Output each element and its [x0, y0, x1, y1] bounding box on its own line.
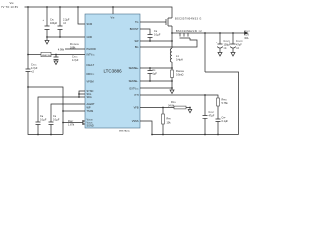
svg-text:COUT2: COUT2 [236, 40, 243, 43]
svg-text:0.1µF: 0.1µF [154, 34, 161, 37]
svg-text:47µF: 47µF [236, 43, 242, 46]
svg-text:34.8k: 34.8k [168, 105, 175, 108]
svg-text:LTC3886: LTC3886 [104, 69, 123, 74]
svg-text:RSENSE: RSENSE [176, 70, 185, 73]
svg-text:1.2V: 1.2V [244, 34, 249, 36]
svg-text:0.4µH: 0.4µH [176, 59, 183, 62]
svg-text:VFB: VFB [134, 106, 139, 109]
svg-text:30A: 30A [244, 37, 249, 40]
svg-text:VPSM: VPSM [87, 80, 94, 83]
svg-text:TG: TG [135, 21, 139, 24]
svg-text:3886 TA01a: 3886 TA01a [119, 130, 131, 133]
svg-text:ALERT: ALERT [87, 103, 95, 106]
svg-text:1µF: 1µF [153, 73, 158, 76]
svg-text:CVCC: CVCC [31, 64, 37, 67]
svg-text:4.99k: 4.99k [58, 49, 65, 52]
svg-text:EXTVCC: EXTVCC [130, 87, 140, 90]
svg-text:GND: GND [87, 36, 93, 39]
svg-text:RFB1: RFB1 [222, 98, 227, 101]
svg-text:MMBT390: MMBT390 [42, 55, 51, 57]
svg-text:0.5mΩ: 0.5mΩ [176, 74, 184, 77]
svg-text:SGND: SGND [87, 125, 94, 128]
svg-text:BG: BG [135, 46, 139, 49]
svg-text:5.76k: 5.76k [222, 102, 229, 105]
svg-text:4.7µF: 4.7µF [72, 59, 79, 62]
svg-text:SCM: SCM [87, 23, 93, 26]
svg-text:DRVCC: DRVCC [87, 73, 95, 76]
svg-text:VOUT: VOUT [244, 30, 250, 33]
svg-text:7V TO 13.5V: 7V TO 13.5V [1, 5, 18, 9]
svg-text:RSET: RSET [68, 120, 74, 123]
svg-text:0.1µF: 0.1µF [40, 119, 47, 122]
svg-text:ITH: ITH [134, 94, 138, 97]
svg-text:47µF: 47µF [209, 115, 215, 118]
svg-text:1.87k: 1.87k [68, 124, 75, 127]
svg-text:WP: WP [87, 106, 91, 109]
svg-text:FAULT: FAULT [87, 64, 95, 67]
svg-text:SDA: SDA [87, 96, 92, 99]
svg-text:BOOST: BOOST [130, 28, 139, 31]
svg-text:VSNS: VSNS [132, 120, 139, 123]
svg-text:BSC057N04NS3 G: BSC057N04NS3 G [175, 18, 202, 21]
svg-text:0.1µF: 0.1µF [53, 119, 60, 122]
svg-text:SENSE+: SENSE+ [129, 67, 139, 70]
svg-text:0.1µF: 0.1µF [222, 120, 229, 123]
svg-text:INTVCC: INTVCC [87, 54, 96, 57]
svg-text:169k: 169k [70, 47, 76, 50]
svg-text:TSNS: TSNS [87, 110, 94, 113]
svg-text:SENSE−: SENSE− [129, 80, 139, 83]
svg-text:100µF: 100µF [50, 22, 58, 25]
svg-text:BSC010NE2LSI ×2: BSC010NE2LSI ×2 [176, 30, 202, 33]
svg-text:SW: SW [134, 40, 139, 43]
svg-text:PGOOD: PGOOD [87, 48, 97, 51]
